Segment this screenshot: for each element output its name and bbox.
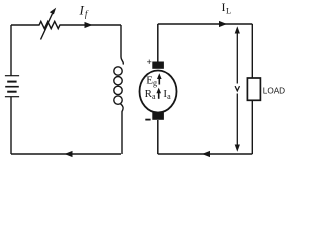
wire: right-loop right side upper xyxy=(251,24,253,78)
load resistor box xyxy=(247,78,260,100)
wire: left-loop right side lower lead xyxy=(121,104,124,154)
wire: left-loop top wire with resistor zigzag xyxy=(11,21,121,28)
voltage V annotation line lower segment with down arrowhead xyxy=(235,94,240,152)
wire: generator top lead xyxy=(157,24,159,62)
generator G armature circle xyxy=(140,71,177,113)
label V xyxy=(235,86,239,91)
svg-text:+: + xyxy=(147,58,152,68)
wire: right-loop bottom wire xyxy=(158,153,253,155)
brush terminal top xyxy=(152,62,164,69)
battery B (field supply) xyxy=(5,76,19,97)
current arrow IL on top wire xyxy=(219,21,227,27)
current arrow on left-loop bottom wire xyxy=(65,151,73,157)
resistor R (rheostat) diagonal arrow xyxy=(41,8,57,40)
voltage V annotation line upper segment with up arrowhead xyxy=(235,26,240,83)
wire: left-loop left side upper xyxy=(10,25,12,76)
wire: generator bottom lead xyxy=(157,120,159,154)
brush terminal bottom xyxy=(152,113,164,120)
wire: left-loop left side lower xyxy=(10,97,12,154)
current arrow If on top wire xyxy=(85,22,93,28)
label - terminal xyxy=(145,119,150,121)
wire: left-loop bottom wire xyxy=(11,153,121,155)
current arrow on right-loop bottom wire xyxy=(202,151,210,157)
wire: right-loop top wire xyxy=(158,23,253,25)
svg-text:LOAD: LOAD xyxy=(263,87,285,96)
inductor L (field winding) 4 turns xyxy=(114,67,122,105)
wire: left-loop right side upper lead xyxy=(121,25,123,65)
wire: right-loop right side lower xyxy=(251,100,253,154)
